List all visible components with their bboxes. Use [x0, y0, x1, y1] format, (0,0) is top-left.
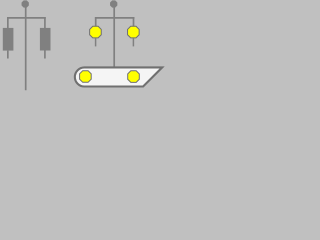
wire: drop to left weight [7, 17, 9, 28]
wire: stub below left weight [7, 51, 9, 59]
wire: stub below lamp L1 [95, 38, 97, 46]
lamp L3 (left lamp in tray) [80, 71, 92, 83]
wire: stub below right weight [44, 51, 46, 59]
wire: drop to right weight [44, 17, 46, 28]
node B: right gantry top node [110, 0, 117, 7]
lamp L1 (left hanging lamp) [90, 26, 102, 38]
wire: left gantry horizontal bar [7, 17, 46, 19]
wire: stub below lamp L2 [132, 38, 134, 46]
node A: left gantry top node [22, 0, 29, 7]
wire: left gantry stem (node to bottom) [25, 7, 27, 91]
weight block B1 (left rectangle) [3, 28, 14, 51]
wire: right gantry stem (node to tray) [113, 7, 115, 68]
tray (boat with rounded left end and slanted right edge) [75, 67, 162, 86]
lamp L4 (right lamp in tray) [128, 71, 140, 83]
weight block B2 (right rectangle) [40, 28, 51, 51]
wire: drop to lamp L1 [95, 17, 97, 26]
wire: drop to lamp L2 [133, 17, 135, 26]
lamp L2 (right hanging lamp) [128, 26, 140, 38]
wire: right gantry horizontal bar [95, 17, 135, 19]
